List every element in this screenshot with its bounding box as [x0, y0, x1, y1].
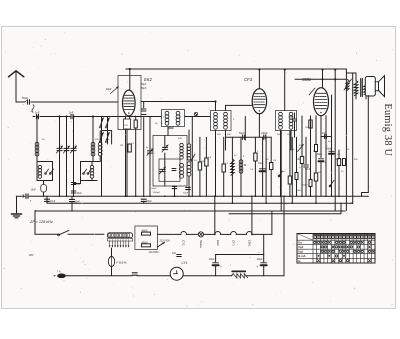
svg-text:50µF: 50µF — [317, 154, 323, 156]
svg-text:+: + — [299, 165, 301, 169]
svg-text:50pF: 50pF — [141, 83, 147, 86]
svg-text:CY1: CY1 — [182, 261, 188, 265]
svg-text:5000: 5000 — [303, 185, 309, 187]
svg-text:4600: 4600 — [142, 240, 148, 244]
svg-text:Eumig 38 U: Eumig 38 U — [382, 104, 393, 157]
svg-text:Ik mA: Ik mA — [298, 254, 305, 258]
svg-text:50µF: 50µF — [327, 148, 333, 151]
svg-text:ZF = 128 kHz: ZF = 128 kHz — [29, 220, 53, 224]
svg-text:100pF: 100pF — [261, 132, 268, 135]
svg-text:50nF: 50nF — [147, 201, 153, 203]
svg-text:1M: 1M — [120, 145, 123, 147]
svg-text:50µF: 50µF — [152, 188, 158, 190]
svg-text:40V: 40V — [29, 253, 34, 257]
svg-text:CF3: CF3 — [244, 77, 253, 82]
svg-text:2nF: 2nF — [172, 252, 177, 255]
svg-text:50pF: 50pF — [239, 132, 245, 135]
svg-text:40µF: 40µF — [258, 162, 264, 165]
svg-text:4nF: 4nF — [322, 133, 327, 135]
svg-text:15nF: 15nF — [31, 189, 37, 192]
svg-text:110-150V: 110-150V — [149, 251, 160, 254]
svg-text:M: M — [244, 163, 246, 167]
svg-text:F 600 M: F 600 M — [117, 260, 128, 264]
svg-text:10nF: 10nF — [75, 202, 81, 204]
svg-text:CY1: CY1 — [182, 240, 186, 246]
svg-text:CF3: CF3 — [232, 240, 236, 246]
svg-text:10nF: 10nF — [50, 201, 56, 203]
svg-text:EK2: EK2 — [144, 77, 153, 82]
svg-text:50µF: 50µF — [289, 117, 295, 119]
svg-text:40pF: 40pF — [106, 88, 112, 91]
svg-text:1nF: 1nF — [35, 111, 40, 115]
svg-text:1500pF: 1500pF — [153, 192, 161, 194]
svg-text:EK2: EK2 — [216, 240, 220, 246]
svg-text:1nF: 1nF — [69, 111, 74, 115]
svg-text:+: + — [220, 265, 222, 269]
svg-text:1nF: 1nF — [77, 184, 82, 186]
svg-text:T A: T A — [57, 271, 61, 274]
svg-text:10nF: 10nF — [77, 193, 83, 195]
svg-text:4600: 4600 — [142, 229, 148, 233]
svg-text:50pF: 50pF — [22, 96, 28, 100]
svg-text:Ug1: Ug1 — [298, 250, 304, 254]
svg-text:Skala: Skala — [199, 240, 203, 248]
svg-text:220-240V: 220-240V — [160, 239, 171, 242]
svg-text:50pF: 50pF — [141, 87, 147, 90]
svg-text:Ug2: Ug2 — [298, 245, 304, 249]
svg-text:50µF: 50µF — [183, 193, 189, 195]
svg-text:+: + — [257, 265, 259, 269]
svg-text:Ua: Ua — [298, 241, 302, 245]
svg-text:40µF: 40µF — [257, 258, 263, 261]
svg-text:+: + — [325, 160, 327, 164]
svg-text:16µF: 16µF — [209, 258, 215, 261]
svg-text:CBl1: CBl1 — [247, 240, 251, 247]
svg-text:2000: 2000 — [296, 190, 302, 192]
